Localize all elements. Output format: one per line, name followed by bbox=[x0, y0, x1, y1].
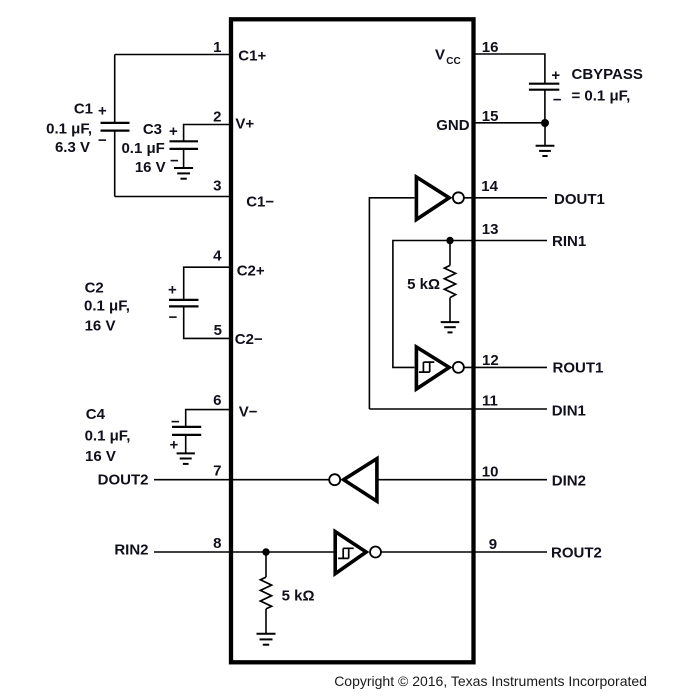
svg-text:DIN1: DIN1 bbox=[552, 403, 586, 420]
svg-text:Copyright © 2016, Texas Instru: Copyright © 2016, Texas Instruments Inco… bbox=[334, 673, 647, 689]
svg-text:V: V bbox=[435, 47, 445, 64]
wire pin1 bbox=[115, 54, 231, 56]
svg-text:8: 8 bbox=[213, 535, 221, 552]
wire pin13 bbox=[393, 241, 547, 368]
svg-text:6.3 V: 6.3 V bbox=[55, 139, 90, 156]
capacitor CBYPASS bbox=[529, 83, 559, 85]
wire C3 to ground bbox=[183, 149, 185, 168]
svg-text:9: 9 bbox=[489, 536, 497, 553]
ground R2 bbox=[257, 633, 276, 635]
svg-text:5: 5 bbox=[214, 322, 222, 339]
ground CBYPASS bbox=[536, 145, 555, 147]
svg-text:RIN1: RIN1 bbox=[552, 233, 586, 250]
svg-text:16 V: 16 V bbox=[135, 159, 166, 176]
svg-text:−: − bbox=[98, 132, 107, 149]
svg-text:11: 11 bbox=[482, 393, 498, 410]
schmitt U2C bubble bbox=[453, 362, 464, 373]
wire pin8 bbox=[154, 551, 333, 553]
wire CBYPASS to node bbox=[544, 90, 546, 123]
svg-text:5 kΩ: 5 kΩ bbox=[282, 587, 315, 604]
wire pin10 bbox=[377, 479, 547, 481]
resistor R2 wire top bbox=[265, 552, 267, 577]
capacitor C2 bbox=[169, 299, 199, 301]
inverter U2A triangle bbox=[416, 177, 449, 220]
svg-text:DOUT1: DOUT1 bbox=[554, 191, 605, 208]
inverter U2B triangle (left pointing) bbox=[344, 459, 377, 502]
capacitor C1 bbox=[101, 122, 130, 124]
svg-text:RIN2: RIN2 bbox=[114, 541, 148, 558]
svg-text:V−: V− bbox=[239, 403, 258, 420]
ground C4 bbox=[177, 452, 195, 454]
capacitor C4 bbox=[172, 426, 201, 428]
wire C4 to ground bbox=[185, 435, 187, 454]
svg-text:CC: CC bbox=[446, 56, 460, 67]
wire pin7 bbox=[154, 479, 329, 481]
svg-text:10: 10 bbox=[482, 463, 499, 480]
wire C1 vertical top bbox=[114, 55, 116, 123]
schmitt hysteresis glyph U2D bbox=[338, 548, 354, 558]
inverter U2B bubble bbox=[329, 474, 340, 485]
svg-text:C2+: C2+ bbox=[237, 263, 265, 280]
schmitt buffer U2D triangle bbox=[335, 532, 366, 574]
svg-text:7: 7 bbox=[213, 463, 221, 480]
node junction at pin15 bbox=[541, 119, 549, 127]
svg-text:+: + bbox=[170, 437, 179, 454]
wire pin6 bbox=[186, 410, 231, 427]
schmitt buffer U2C triangle bbox=[416, 347, 449, 389]
svg-text:−: − bbox=[553, 91, 562, 108]
wire pin5 bbox=[184, 306, 231, 338]
svg-text:−: − bbox=[169, 309, 178, 326]
svg-text:0.1 μF,: 0.1 μF, bbox=[84, 297, 130, 314]
wire pin4 bbox=[184, 267, 231, 300]
svg-text:C4: C4 bbox=[86, 406, 106, 423]
resistor R1 wire bottom bbox=[449, 298, 451, 323]
svg-text:+: + bbox=[169, 123, 178, 140]
IC body U1 bbox=[231, 19, 474, 662]
svg-text:C2: C2 bbox=[85, 280, 104, 297]
wire pin15 bbox=[474, 122, 545, 124]
svg-text:ROUT2: ROUT2 bbox=[551, 544, 602, 561]
svg-text:3: 3 bbox=[213, 178, 221, 195]
resistor R2 wire bottom bbox=[265, 609, 267, 634]
wire pin11 bbox=[369, 408, 547, 410]
svg-text:−: − bbox=[171, 413, 180, 430]
svg-text:C2−: C2− bbox=[235, 331, 263, 348]
svg-text:ROUT1: ROUT1 bbox=[553, 359, 604, 376]
svg-text:+: + bbox=[98, 103, 107, 120]
svg-text:13: 13 bbox=[482, 221, 499, 238]
wire pin9 bbox=[381, 551, 547, 553]
node junction at pin8 bbox=[262, 548, 269, 555]
svg-text:+: + bbox=[168, 282, 177, 299]
node junction at pin13 bbox=[446, 237, 453, 244]
svg-text:1: 1 bbox=[213, 39, 221, 56]
resistor R1 wire top bbox=[449, 241, 451, 266]
svg-text:C1+: C1+ bbox=[238, 47, 266, 64]
wire C1 vertical bottom bbox=[114, 131, 116, 197]
svg-text:16 V: 16 V bbox=[85, 448, 116, 465]
wire pin3 bbox=[115, 196, 231, 198]
svg-text:C1−: C1− bbox=[246, 193, 274, 210]
svg-text:0.1 μF,: 0.1 μF, bbox=[46, 120, 92, 137]
wire pin2 bbox=[184, 125, 231, 142]
wire pin12 bbox=[464, 366, 547, 368]
resistor R1 zigzag bbox=[444, 265, 455, 297]
svg-text:C3: C3 bbox=[143, 121, 162, 138]
inverter U2A bubble bbox=[453, 192, 464, 203]
svg-text:4: 4 bbox=[213, 247, 222, 264]
ground C3 bbox=[174, 167, 193, 169]
svg-text:0.1 μF,: 0.1 μF, bbox=[85, 428, 131, 445]
capacitor C3 bbox=[170, 140, 199, 142]
schmitt U2D bubble bbox=[370, 547, 381, 558]
svg-text:2: 2 bbox=[213, 109, 221, 126]
schmitt hysteresis glyph U2C bbox=[419, 362, 434, 372]
wire pin16 bbox=[474, 54, 545, 84]
svg-text:DOUT2: DOUT2 bbox=[98, 472, 149, 489]
svg-text:CBYPASS: CBYPASS bbox=[572, 66, 643, 83]
svg-text:GND: GND bbox=[436, 117, 470, 134]
ground R1 bbox=[441, 321, 460, 323]
svg-text:16 V: 16 V bbox=[85, 317, 116, 334]
svg-text:5 kΩ: 5 kΩ bbox=[407, 276, 440, 293]
svg-text:+: + bbox=[551, 67, 560, 84]
svg-text:C1: C1 bbox=[74, 100, 93, 117]
svg-text:0.1 μF: 0.1 μF bbox=[121, 140, 164, 157]
svg-text:= 0.1 μF,: = 0.1 μF, bbox=[572, 87, 631, 104]
svg-text:DIN2: DIN2 bbox=[552, 473, 586, 490]
svg-text:−: − bbox=[170, 152, 179, 169]
svg-text:14: 14 bbox=[481, 178, 498, 195]
wire DIN1 input vertical bbox=[369, 198, 414, 409]
resistor R2 zigzag bbox=[260, 577, 271, 609]
wire node to ground bbox=[544, 123, 546, 146]
svg-text:12: 12 bbox=[482, 352, 499, 369]
svg-text:6: 6 bbox=[213, 392, 221, 409]
svg-text:V+: V+ bbox=[235, 116, 254, 133]
wire pin14 bbox=[464, 197, 547, 199]
